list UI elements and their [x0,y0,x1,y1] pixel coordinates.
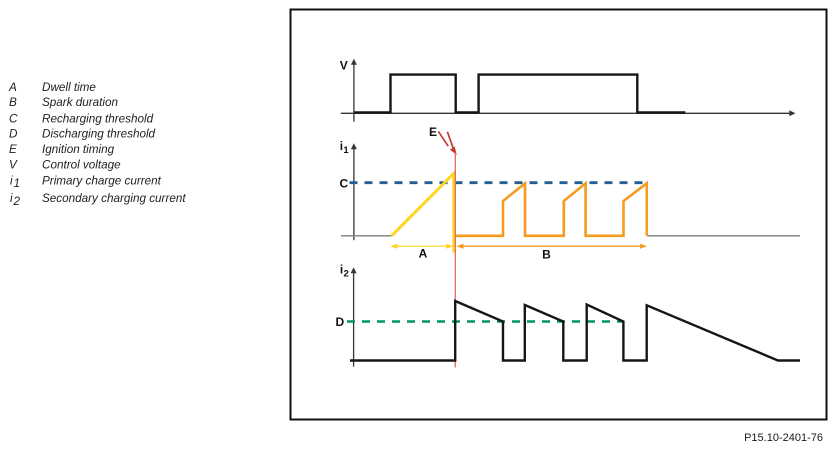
svg-text:A: A [419,247,428,261]
svg-text:Control voltage: Control voltage [42,159,121,172]
plot V: horizontal axis [341,112,791,114]
plot V: horizontal axis arrowhead [789,110,795,116]
svg-text:B: B [542,248,551,262]
ignition timing flash arrow (red) [438,131,448,146]
threshold D dashed line (green) [347,320,623,322]
svg-text:P15.10-2401-76: P15.10-2401-76 [744,432,823,444]
plot V: vertical axis [353,62,355,122]
svg-text:Ignition timing: Ignition timing [42,143,115,156]
svg-text:C: C [9,112,18,125]
svg-text:B: B [9,96,17,109]
svg-text:2: 2 [13,195,21,208]
waveform V (control voltage square wave) [354,75,685,113]
primary charge ramp (yellow) [392,173,454,252]
plot i1: horizontal axis left segment [341,235,392,237]
svg-text:V: V [9,159,18,172]
svg-text:C: C [340,176,349,190]
svg-text:2: 2 [344,268,349,279]
plot i1: horizontal axis right segment [647,235,800,237]
svg-text:Spark duration: Spark duration [42,96,118,109]
dimension arrow B (orange) [459,245,645,247]
svg-text:Dwell time: Dwell time [42,81,96,94]
plot V: vertical axis arrowhead [351,59,357,65]
plot i2: vertical axis [353,271,355,367]
svg-text:1: 1 [14,177,21,190]
frame box [291,10,827,420]
secondary current waveform (black) [350,301,800,361]
svg-text:Recharging threshold: Recharging threshold [42,112,154,125]
svg-text:V: V [340,59,348,73]
svg-text:Secondary charging current: Secondary charging current [42,192,186,205]
svg-text:1: 1 [343,145,349,156]
svg-text:E: E [429,125,437,139]
svg-text:D: D [9,128,18,141]
ignition timing vertical line (red) [454,153,456,368]
primary recharge waveform (orange) [456,183,647,236]
svg-text:Discharging threshold: Discharging threshold [42,128,156,141]
svg-text:Primary charge current: Primary charge current [42,174,162,187]
plot i1: vertical axis arrowhead [351,143,357,149]
svg-text:E: E [9,143,17,156]
threshold C dashed line (blue) [350,181,647,184]
plot i1: vertical axis [353,146,355,240]
dimension arrow A (yellow) [393,245,451,247]
plot i2: vertical axis arrowhead [351,267,357,273]
svg-text:A: A [8,81,17,94]
svg-text:D: D [336,315,345,329]
